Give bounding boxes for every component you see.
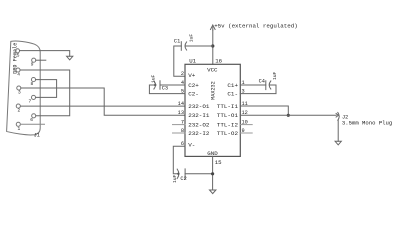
node VCC junction — [211, 44, 214, 47]
svg-text:5: 5 — [17, 53, 20, 59]
svg-text:C2+: C2+ — [188, 82, 199, 89]
wire stub TTL-O2 pin 9 — [240, 132, 252, 134]
pin 6 circle — [32, 114, 36, 118]
svg-text:232-I1: 232-I1 — [188, 112, 210, 119]
IC U1 MAX232 body — [185, 64, 240, 156]
svg-text:+5v (external regulated): +5v (external regulated) — [214, 23, 298, 30]
svg-text:C2-: C2- — [188, 91, 199, 98]
pin 7 circle — [31, 95, 35, 99]
svg-text:1uF: 1uF — [272, 71, 278, 80]
wire stub 232-I2 pin 8 — [173, 132, 186, 134]
svg-text:7: 7 — [29, 98, 32, 104]
wire C4 to C1- pin3 — [240, 85, 276, 94]
svg-text:GND: GND — [207, 150, 218, 157]
wire V- pin6 to C2 — [173, 146, 185, 174]
wire pin1 stub — [21, 123, 45, 125]
svg-text:V-: V- — [188, 142, 195, 149]
svg-text:1uF: 1uF — [188, 34, 194, 43]
wire pin2 to chip 232-O1 — [21, 105, 185, 107]
pin 2 circle — [16, 104, 20, 108]
wire pin3 to chip 232-I1 — [21, 88, 185, 115]
ground (chip) — [210, 190, 216, 194]
svg-text:1uF: 1uF — [150, 74, 156, 83]
svg-text:1: 1 — [18, 126, 21, 132]
capacitor C4 — [265, 81, 267, 90]
wire pin8 to pin7 loopback — [36, 80, 57, 98]
connector J2 mono plug tip — [336, 114, 338, 118]
wire C1 left down to V+ pin 2 — [174, 46, 185, 76]
capacitor C2 — [184, 169, 186, 179]
svg-text:TTL-I1: TTL-I1 — [217, 103, 239, 110]
wire stub 232-O2 pin 7 — [173, 124, 186, 126]
svg-text:3: 3 — [18, 90, 21, 96]
svg-text:232-I2: 232-I2 — [188, 130, 210, 137]
pin 3 circle — [17, 86, 21, 90]
wire C2+ pin4 to C3 — [160, 84, 185, 86]
svg-text:TTL-O1: TTL-O1 — [217, 112, 239, 119]
svg-text:C4: C4 — [259, 78, 265, 84]
svg-text:V+: V+ — [188, 72, 196, 79]
wire C3 to C2- pin5 — [149, 85, 185, 94]
wire pin4 to pin6 loopback — [20, 70, 69, 116]
svg-text:232-O1: 232-O1 — [188, 103, 210, 110]
pin 8 circle — [31, 78, 35, 82]
connector J1 DB9 Female outline — [7, 41, 41, 135]
svg-text:C1-: C1- — [227, 91, 238, 98]
svg-text:8: 8 — [31, 81, 34, 87]
wire TTL-O1 pin12 to J2 — [240, 114, 336, 116]
svg-text:2: 2 — [181, 71, 184, 77]
ground (J2) — [335, 141, 341, 145]
svg-text:U1: U1 — [189, 58, 196, 65]
node junction pin11/pin12 — [287, 114, 290, 117]
svg-text:6: 6 — [30, 117, 33, 123]
svg-text:4: 4 — [17, 72, 20, 78]
wire pin9 stub — [36, 59, 46, 61]
svg-text:14: 14 — [178, 101, 184, 107]
pin 9 circle — [32, 58, 36, 62]
wire stub TTL-I2 pin 10 — [240, 124, 252, 126]
svg-text:2: 2 — [18, 108, 21, 114]
capacitor C3 — [159, 81, 161, 90]
svg-text:C1: C1 — [174, 39, 180, 45]
wire TTL-I1 pin11 jog down — [240, 106, 288, 115]
ground (DB9 pin5) — [67, 56, 73, 60]
wire C1 right to VCC junction — [185, 45, 213, 47]
svg-text:232-O2: 232-O2 — [188, 122, 210, 129]
svg-text:VCC: VCC — [207, 66, 218, 73]
node ground junction — [211, 172, 214, 175]
pin 1 circle — [16, 122, 20, 126]
svg-text:16: 16 — [215, 58, 222, 65]
wire J2 sleeve to ground — [337, 120, 339, 141]
pin 5 circle — [15, 49, 19, 53]
svg-text:15: 15 — [215, 159, 222, 166]
power +5v symbol — [211, 25, 216, 30]
wire C1+ pin1 to C4 — [240, 84, 265, 86]
pin 4 circle — [16, 68, 20, 72]
wire GND pin15 down — [212, 156, 214, 190]
svg-text:13: 13 — [178, 110, 184, 116]
svg-text:MAX232: MAX232 — [211, 81, 217, 100]
wire pin5 to ground — [20, 51, 70, 57]
svg-text:J1: J1 — [34, 133, 40, 139]
svg-text:C1+: C1+ — [227, 82, 238, 89]
svg-text:TTL-O2: TTL-O2 — [217, 130, 239, 137]
wire C2 to GND junction — [185, 173, 213, 175]
svg-text:9: 9 — [31, 62, 34, 68]
svg-text:1uF: 1uF — [172, 174, 178, 183]
connector J2 sleeve arc — [338, 112, 339, 120]
svg-text:C3: C3 — [162, 85, 168, 91]
svg-text:TTL-I2: TTL-I2 — [217, 122, 239, 129]
svg-text:3.5mm Mono Plug: 3.5mm Mono Plug — [342, 120, 392, 127]
capacitor C1 — [180, 42, 182, 51]
wire VCC vertical to pin 16 — [212, 30, 214, 64]
svg-text:C2: C2 — [180, 176, 186, 182]
